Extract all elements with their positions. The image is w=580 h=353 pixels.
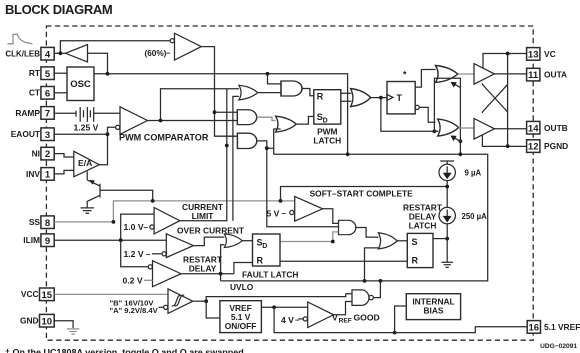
node latch Q [445,237,449,241]
vref regulator block [220,301,262,333]
or gate OR2 (to S_D) [276,116,297,132]
svg-text:VCC: VCC [21,289,39,299]
svg-text:T: T [397,93,403,103]
buffer U2 (clock buffer, points left) [66,45,88,63]
svg-text:12: 12 [528,142,539,153]
node EAOUT [106,132,110,136]
wire big OR second input riser [274,129,281,148]
wire fault latch R [234,263,253,274]
wire OUTA [494,73,526,75]
svg-text:9 µA: 9 µA [465,168,482,177]
svg-text:4 V: 4 V [281,315,294,325]
wire ILIM to over-current [54,239,166,241]
svg-text:"A" 9.2V/8.4V: "A" 9.2V/8.4V [110,306,159,315]
and gate AND4 [339,220,356,234]
svg-text:UDG−02091: UDG−02091 [540,343,577,350]
wire T Qbar to lower NOR [419,107,435,122]
svg-text:13: 13 [528,50,539,61]
svg-text:7: 7 [45,109,50,120]
svg-text:–: – [144,223,149,232]
wire cross riser to arrows [434,78,460,154]
svg-text:RAMP: RAMP [15,108,40,118]
pin 2 NI [32,147,55,160]
svg-text:ON/OFF: ON/OFF [225,321,257,331]
svg-text:DELAY: DELAY [189,264,217,274]
comparator U5 current limit [154,208,180,234]
node VREF out [272,305,276,309]
svg-text:1.2 V: 1.2 V [124,249,144,259]
node ILIM/CL riser [119,238,123,242]
wire fault latch Qbar to restart R [280,260,407,262]
pin 10 GND [20,314,54,327]
pin 16 5.1 VREF [527,321,580,334]
wire to internal bias [395,306,407,333]
wire RD output [181,273,234,275]
wire SSC out to AND4 [323,209,339,224]
svg-text:UVLO: UVLO [230,282,254,292]
wire PWM comparator output [148,89,239,121]
svg-text:–: – [146,250,151,259]
node OSC-buffer [106,72,110,76]
node SS riser [112,220,116,224]
svg-text:PGND: PGND [544,141,568,151]
node CL/AND3 [225,144,229,148]
wire 5.1V to pin16 [274,307,527,332]
svg-text:0.2 V: 0.2 V [123,276,143,286]
wire AND2 out to big OR [257,117,276,120]
wire AND4 out to OR4 [356,228,379,238]
node 60% clock branch [213,110,217,114]
svg-text:–: – [166,49,171,58]
comparator U13 VREF GOOD [308,302,334,328]
bubble 60% input [170,39,174,43]
hysteresis glyph [172,295,184,306]
or gate OR5 (fault set) [224,234,242,248]
svg-text:5: 5 [45,69,51,80]
node fault Q riser [331,240,335,244]
pin 1 INV [26,168,54,181]
bubble T Qbar [415,105,419,109]
svg-text:14: 14 [528,123,539,134]
pin 15 VCC [21,288,54,301]
wire OSC output east [94,74,348,155]
and gate AND1 [281,81,302,96]
bubble CL inverting input [150,225,154,229]
svg-text:BLOCK DIAGRAM: BLOCK DIAGRAM [5,2,112,17]
wire CL + input from ILIM [121,214,154,240]
wire latch Q to OR3 [341,93,352,101]
wire W1 blanking [221,154,488,281]
error amp E/A [74,151,100,177]
wire OR2 out to S_D [296,117,314,125]
svg-text:9: 9 [45,236,50,247]
arrow into lower NOR [454,138,461,142]
svg-text:1: 1 [45,170,51,181]
pin 11 OUTA [527,68,568,81]
wire AND3 out [257,141,274,154]
svg-text:S: S [412,237,418,247]
fault latch U11 [253,234,281,266]
svg-text:CLK/LEB: CLK/LEB [5,50,40,59]
bubble UVLO inverting [164,305,168,309]
wire pin4 node to 60% comparator input [60,41,169,54]
nand gate NAND1 [352,290,369,305]
comparator U9 soft start complete [295,196,323,221]
CLK/LEB waveform glyph [8,34,33,44]
wire T Q to upper NOR [415,70,435,88]
wire UVLO output [193,300,206,302]
svg-text:E/A: E/A [78,158,92,168]
nor gate lower output [438,119,459,136]
svg-text:† On the UC1808A version, togg: † On the UC1808A version, toggle Q and Q… [5,347,246,353]
wire RD - input from ILIM riser [121,240,149,267]
svg-text:10: 10 [42,316,53,327]
pin 6 CT [29,87,54,100]
svg-text:R: R [317,92,324,102]
pin 13 VC [527,48,556,61]
wire OR3 out to T flop [371,97,387,99]
svg-text:REF: REF [339,317,352,324]
or gate OR4 (restart set) [378,233,397,249]
svg-text:5 V: 5 V [267,209,280,219]
bubble SSC inverting [290,210,294,214]
wire RD to fault OR [221,245,225,274]
transistor Q1 [87,180,100,208]
current source 250uA [439,207,455,223]
node OSC-AND1 riser [266,72,270,76]
svg-text:SOFT–START COMPLETE: SOFT–START COMPLETE [310,188,414,198]
wire RT to OSC [54,72,67,74]
wire AND1 out to latch R [302,89,314,96]
current source 9uA [440,161,454,164]
svg-text:BIAS: BIAS [423,306,443,316]
rail between sources [446,181,448,208]
wire NAND out to W2 [373,281,380,298]
wire OR5 out to fault S [242,240,252,242]
wire Q1 base [100,190,153,200]
svg-text:LIMIT: LIMIT [192,211,215,221]
wire OR1 out to AND1 [258,92,281,94]
svg-text:EAOUT: EAOUT [11,129,41,139]
and gate AND2 [237,110,256,125]
pwm latch U8 [314,90,341,125]
svg-text:OVER CURRENT: OVER CURRENT [177,226,245,236]
wire CL output up to OR1 [180,89,227,221]
wire EAOUT net [54,127,115,164]
output driver B [474,119,494,140]
svg-text:–: – [282,209,287,218]
node RD out [219,272,223,276]
node W2/restart OR riser [363,279,367,283]
svg-text:5.1 VREF: 5.1 VREF [544,322,580,332]
internal bias block [406,294,460,320]
svg-text:GOOD: GOOD [354,312,380,322]
pin 12 PGND [527,140,569,153]
wire VCC to UVLO [54,293,168,295]
svg-text:RT: RT [29,68,41,78]
and gate AND3 [237,133,256,148]
wire fault Q to AND4 [280,232,339,242]
wire RD to W2 [220,274,222,281]
IC boundary dashed border [46,26,533,340]
svg-text:3: 3 [45,130,50,141]
svg-text:OUTB: OUTB [544,123,568,133]
bubble OC inverting input [162,252,166,256]
svg-text:LATCH: LATCH [313,135,341,145]
wire VC rail [483,54,527,68]
bubble PWM comparator inverting input [116,125,120,129]
pin 3 EAOUT [11,128,55,141]
wire buffer input from OSC line [88,53,108,73]
svg-text:(60%): (60%) [145,49,167,58]
node 9uA/SS [445,185,449,189]
transistor Q1 emitter to E/A output edge [86,171,88,180]
node arrow branch [459,139,463,143]
svg-text:6: 6 [45,88,50,99]
svg-text:FAULT LATCH: FAULT LATCH [242,270,298,280]
wire OR1 second input riser [233,96,239,220]
arrow into upper NOR [454,84,460,88]
node AND3 out [265,146,269,150]
pin 14 OUTB [527,121,568,134]
svg-text:15: 15 [42,290,53,301]
pin 8 SS [29,216,54,229]
svg-text:VC: VC [544,49,556,59]
output driver A [474,64,494,85]
wire UVLO to VREF block [206,301,220,318]
node PWM comp out [159,119,163,123]
svg-text:NI: NI [32,149,40,159]
svg-text:8: 8 [45,218,50,229]
cross couple diagonals [482,84,507,114]
pin 7 RAMP [15,107,54,120]
wire GND to ground [54,321,73,328]
svg-text:SS: SS [29,217,41,227]
node SS/Q1 [151,199,155,203]
node W1/OSC riser [346,152,350,156]
wire 9uA feed [281,187,448,201]
wire UVLO to NAND [206,294,352,302]
svg-text:11: 11 [528,70,539,81]
pin 5 RT [29,67,54,80]
wire W2 riser to OR4 [365,248,379,281]
or gate OR1 [239,85,258,100]
node W1/V1 [459,152,463,156]
wire OUTB [494,128,526,130]
wire 60% output down to AND2/AND3 [201,47,237,137]
bubble RD inverting input [148,265,152,269]
or gate OR3 (after latch) [351,89,371,107]
node VC rail [506,52,510,56]
battery 1.25 V [54,112,120,114]
node W2/NAND riser [379,279,383,283]
svg-text:–: – [295,315,300,324]
comparator U4 PWM [120,107,148,135]
svg-text:V: V [332,312,338,322]
svg-text:OUTA: OUTA [544,70,567,80]
wire AND3 net to soft start AND [267,148,338,227]
svg-text:16: 16 [529,323,540,334]
bubble VREF GOOD inverting [303,317,307,321]
wire OR4 out to S [397,240,407,242]
comparator U3 (60%) [175,33,202,60]
svg-text:OSC: OSC [70,79,91,90]
wire latch Q to rail [433,238,447,240]
wire SS pin to SS rail [54,201,295,222]
svg-text:1.0 V: 1.0 V [124,222,144,232]
node bias riser [393,331,397,335]
ground below 250uA [441,262,453,267]
bubble NAND out [369,295,373,299]
wire line A to lower NOR [381,98,439,132]
wire buffer output to pin 4 [54,52,65,54]
comparator U6 over current [166,234,193,258]
svg-text:1.25 V: 1.25 V [74,123,99,133]
nor gate upper output [436,66,458,83]
svg-text:D: D [323,118,328,125]
wire upper NOR to driver [458,73,474,75]
pin 9 ILIM [23,234,54,247]
svg-text:GND: GND [20,316,39,326]
restart delay latch U10 [407,233,433,267]
wire VREF GOOD to NAND [334,302,352,315]
comparator U7 restart delay [153,261,182,287]
svg-text:CT: CT [29,88,41,98]
wire NI to E/A [54,154,74,157]
wire CT to OSC [54,92,67,94]
wire 60% to AND2 [215,111,238,113]
svg-text:4: 4 [45,49,51,60]
node SS/9uA riser [279,199,283,203]
vertical rail VC-PGND [507,54,509,147]
wire AND3 top input from clock [215,135,238,137]
node PGND rail [506,144,510,148]
svg-text:D: D [262,243,267,250]
svg-text:2: 2 [45,149,50,160]
wire AND1 top input [268,74,282,84]
ground symbol GND pin [67,329,79,334]
svg-text:250 µA: 250 µA [462,212,488,221]
oscillator OSC [67,67,94,101]
svg-text:INV: INV [26,169,40,179]
ground below Q1 [81,208,94,213]
node UVLO out [204,299,208,303]
wire PGND rail [482,135,526,147]
wire lower NOR to driver [459,127,474,129]
svg-text:LATCH: LATCH [409,221,437,231]
wire OC output [193,237,224,246]
toggle flip flop T [387,82,415,114]
svg-text:ILIM: ILIM [23,235,40,245]
svg-text:*: * [403,70,407,80]
svg-text:R: R [257,255,264,265]
svg-text:R: R [412,255,419,265]
svg-text:PWM COMPARATOR: PWM COMPARATOR [119,132,209,142]
wire INV to E/A [54,170,74,174]
node at pin4 [59,51,63,55]
node T clock [379,96,383,100]
rail to ground [446,224,448,262]
wire VREF out [261,306,307,308]
comparator U12 UVLO [168,289,193,314]
pin 4 CLK/LEB [5,47,54,60]
node line A / cross riser [433,129,437,133]
